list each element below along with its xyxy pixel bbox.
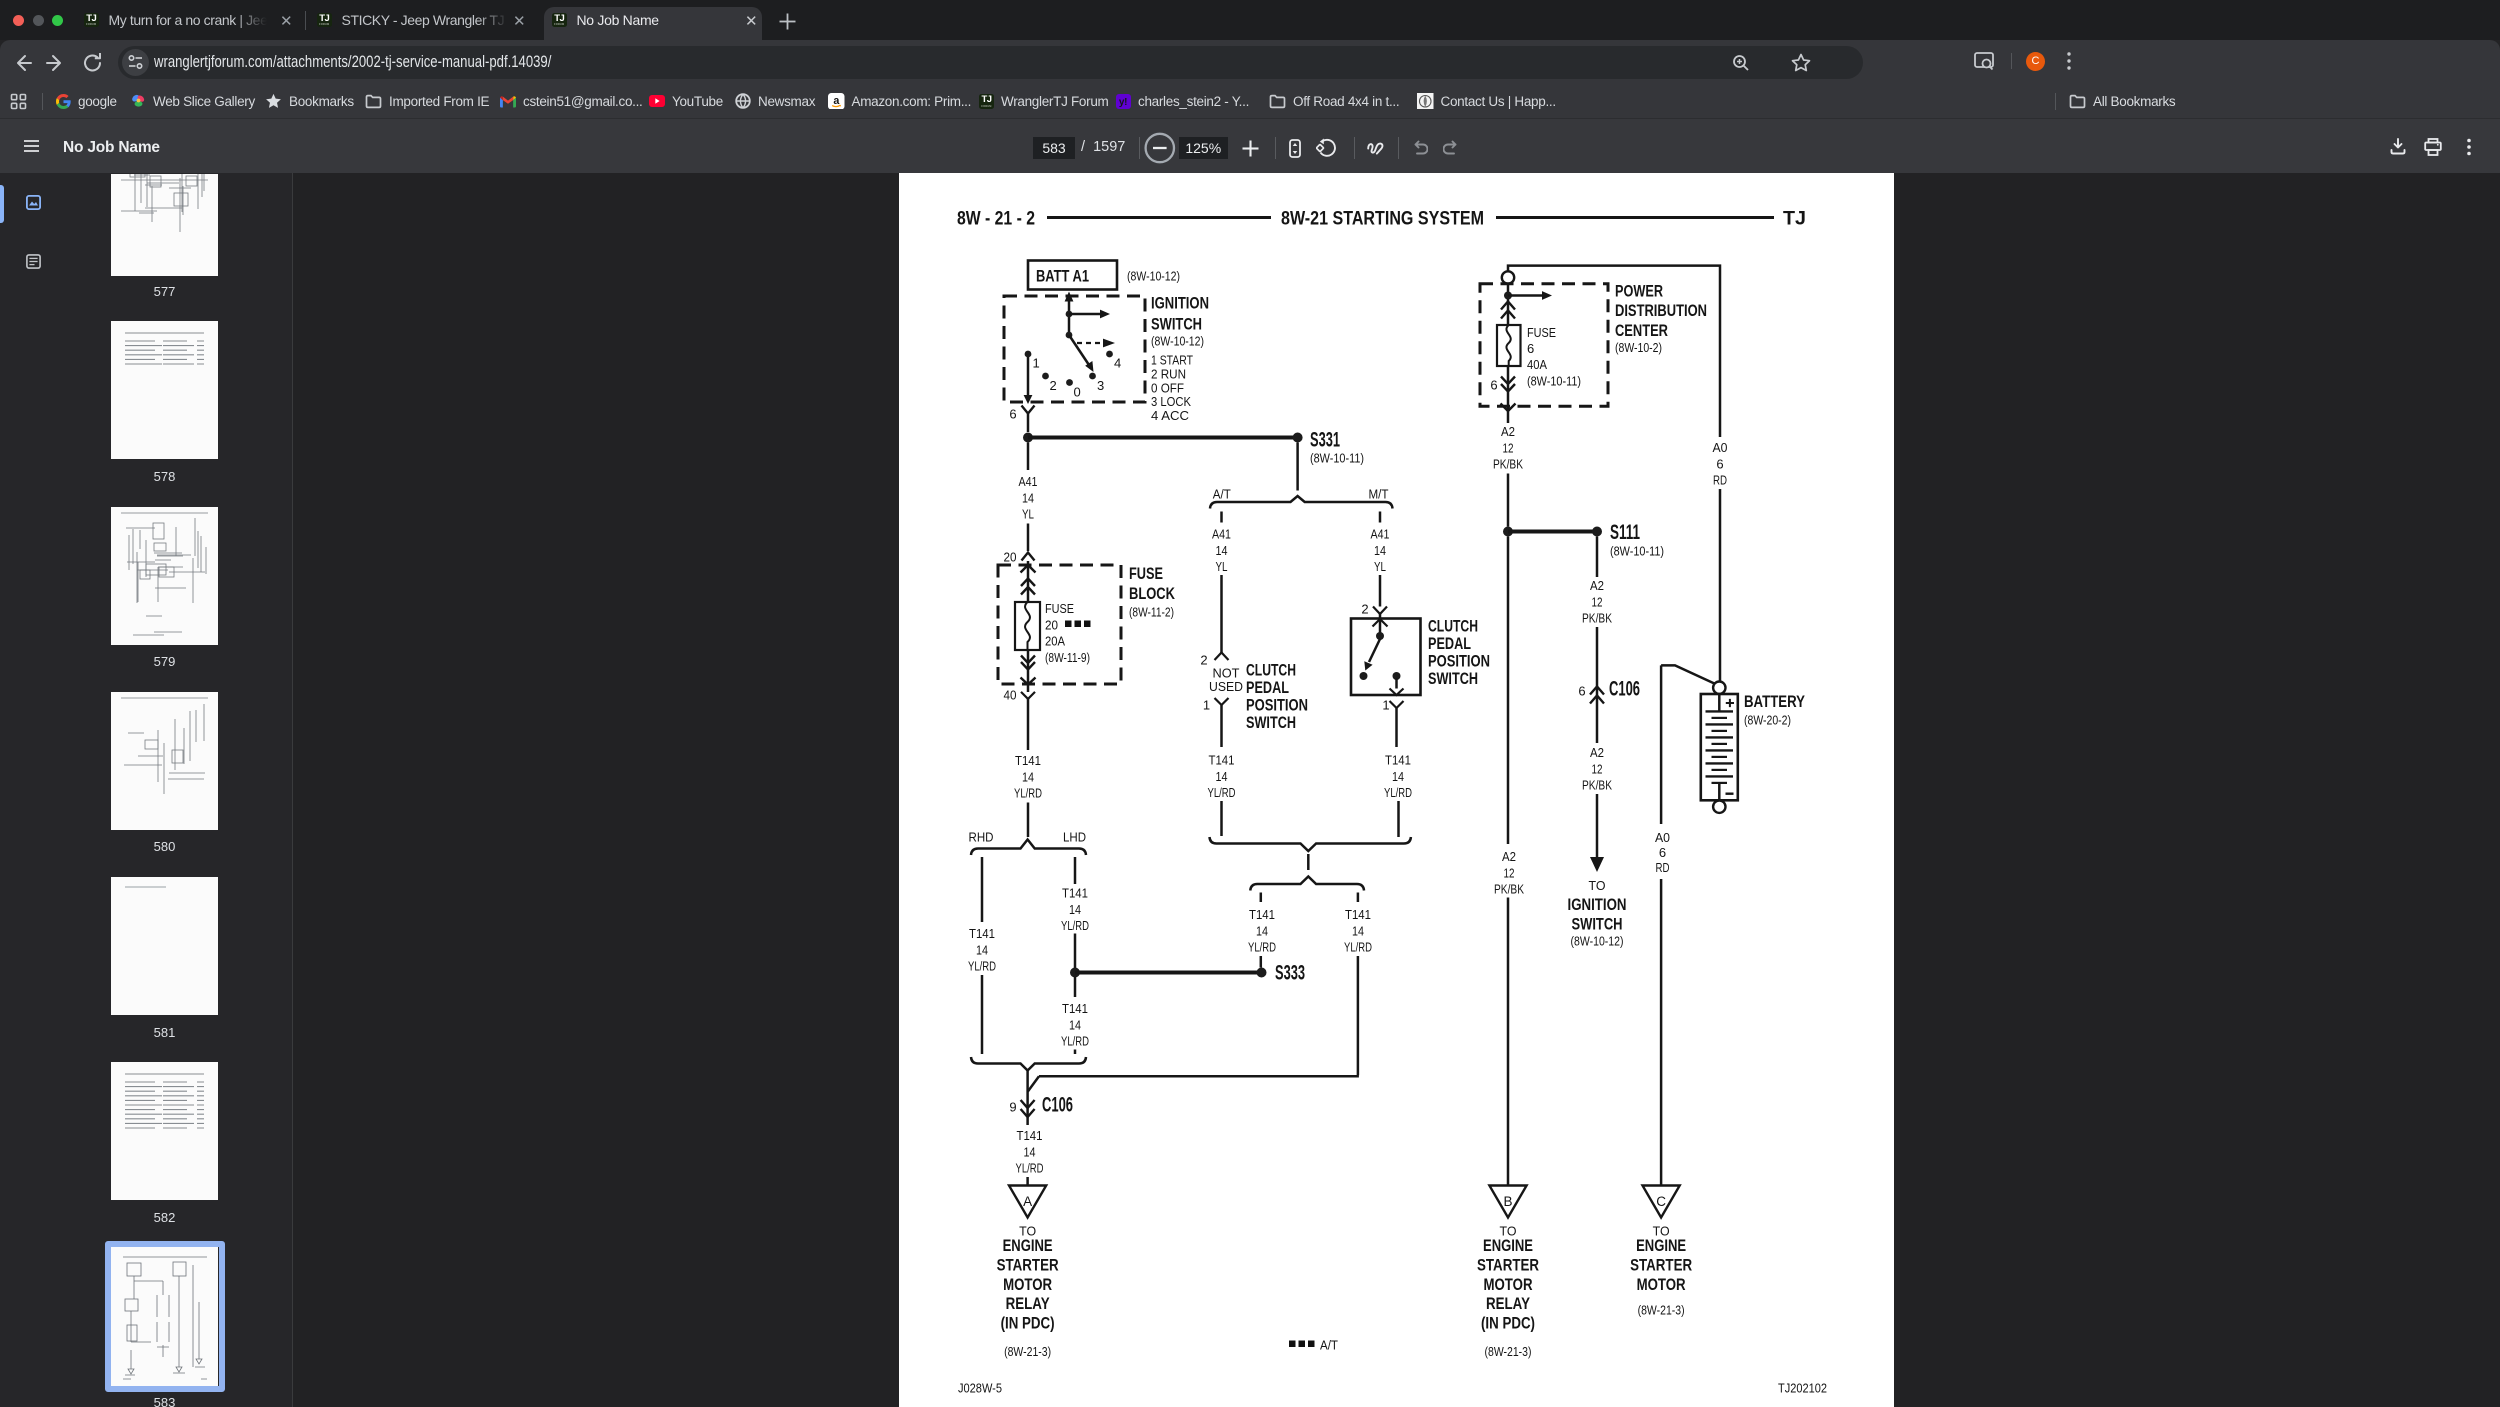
svg-text:1: 1 [1203,698,1210,713]
svg-text:T141: T141 [1385,753,1411,768]
reload [82,48,104,78]
wire into fuse 20 [1027,561,1030,602]
svg-text:12: 12 [1504,865,1515,880]
svg-text:C106: C106 [1042,1094,1073,1117]
svg-text:FUSE: FUSE [1129,564,1163,583]
svg-text:12: 12 [1592,594,1603,609]
svg-text:YL: YL [1374,559,1386,574]
svg-text:14: 14 [1216,769,1228,784]
svg-text:MOTOR: MOTOR [1003,1275,1052,1294]
svg-text:A2: A2 [1501,424,1515,439]
svg-text:(8W-21-3): (8W-21-3) [1638,1303,1685,1318]
svg-text:(8W-11-2): (8W-11-2) [1129,605,1174,620]
svg-text:USED: USED [1209,679,1243,694]
svg-text:RD: RD [1656,860,1670,875]
svg-text:S111: S111 [1610,521,1640,544]
svg-text:(8W-21-3): (8W-21-3) [1485,1344,1532,1359]
svg-text:J028W-5: J028W-5 [958,1381,1002,1396]
svg-text:3 LOCK: 3 LOCK [1151,394,1191,409]
svg-text:RHD: RHD [969,830,994,845]
svg-text:14: 14 [1392,769,1404,784]
svg-text:20A: 20A [1045,634,1065,649]
svg-text:STARTER: STARTER [1630,1255,1692,1274]
svg-text:y!: y! [1119,97,1127,108]
brace splitting A/T M/T [1210,496,1393,509]
PDC top connector circle [1502,271,1514,283]
battery positive terminal circle [1713,682,1725,694]
svg-text:14: 14 [1216,543,1228,558]
pdf toolbar [0,118,2500,173]
svg-text:STARTER: STARTER [1477,1255,1539,1274]
connector chevrons out of fuse block [1021,656,1035,664]
svg-text:(8W-10-11): (8W-10-11) [1310,451,1364,466]
splice S333 [1257,968,1267,978]
battery plus sign [1726,699,1734,707]
svg-text:MOTOR: MOTOR [1484,1275,1533,1294]
toolbar [0,40,2500,118]
svg-text:CENTER: CENTER [1615,321,1668,340]
svg-text:RD: RD [1713,473,1727,488]
svg-text:1: 1 [1382,698,1389,713]
svg-text:(8W-11-9): (8W-11-9) [1045,650,1090,665]
svg-text:C: C [1656,1194,1666,1209]
svg-text:IGNITION: IGNITION [1151,294,1209,313]
svg-text:RELAY: RELAY [1486,1294,1531,1313]
power distribution center dashed outline [1480,284,1608,407]
wire left branch to S333 [1260,893,1263,903]
off-page triangle A [1009,1186,1046,1218]
ignition switch position 4 contact [1106,351,1113,358]
svg-text:(IN PDC): (IN PDC) [1001,1314,1055,1333]
svg-text:(8W-10-12): (8W-10-12) [1151,334,1204,349]
svg-text:CLUTCH: CLUTCH [1246,661,1296,680]
connector C106 chevrons [1026,1102,1029,1125]
ignition switch dashed outline [1004,296,1145,402]
connector chevrons out of PDC [1501,377,1515,385]
svg-text:POSITION: POSITION [1246,696,1308,715]
off-page triangle B [1489,1186,1526,1218]
svg-text:STARTER: STARTER [997,1255,1059,1274]
arrowhead up into BATT A1 [1065,292,1074,302]
svg-text:14: 14 [1256,923,1268,938]
svg-text:A2: A2 [1590,578,1604,593]
wire below A/T M/T merge [1307,854,1310,870]
svg-text:YL/RD: YL/RD [1014,786,1042,801]
svg-text:(8W-10-12): (8W-10-12) [1127,269,1180,284]
wire junction to battery positive [1661,665,1715,683]
wire bus to S333 [1075,971,1262,975]
svg-text:A2: A2 [1590,745,1604,760]
svg-text:A41: A41 [1371,527,1390,542]
svg-text:(8W-20-2): (8W-20-2) [1744,713,1791,728]
svg-text:2: 2 [1050,378,1057,393]
svg-text:SWITCH: SWITCH [1572,915,1623,934]
svg-text:6: 6 [1659,845,1666,860]
svg-text:4 ACC: 4 ACC [1151,408,1189,423]
wire below RHD LHD merge [1026,1071,1029,1103]
wire bus to S111 [1508,530,1597,534]
svg-text:(8W-21-3): (8W-21-3) [1004,1344,1051,1359]
svg-text:YL/RD: YL/RD [1016,1161,1044,1176]
clutch switch output contact dot [1393,672,1401,680]
svg-text:3: 3 [1097,378,1104,393]
svg-text:T141: T141 [1209,753,1235,768]
svg-text:A: A [1023,1194,1032,1209]
svg-text:T141: T141 [1017,1128,1043,1143]
connector C106 upper chevrons [1596,679,1599,743]
redo [1443,140,1457,156]
rotate icon [1316,138,1336,158]
arrow to ignition switch feed [1590,857,1604,872]
svg-text:T141: T141 [1345,907,1371,922]
svg-text:S333: S333 [1275,962,1305,985]
clutch pedal position switch box [1351,619,1421,696]
wire A2 left column down to triangle B [1507,537,1510,845]
svg-text:14: 14 [976,942,988,957]
svg-text:YL/RD: YL/RD [1208,785,1236,800]
svg-text:IGNITION: IGNITION [1568,895,1627,914]
svg-text:40A: 40A [1527,357,1547,372]
svg-text:FUSE: FUSE [1045,601,1074,616]
connector chevrons into fuse block [1021,579,1035,587]
thumbnails [111,174,218,276]
svg-text:20: 20 [1004,550,1017,565]
ignition switch contact dot upper [1066,311,1073,318]
wire out of fuse 6 [1507,366,1510,423]
svg-text:C106: C106 [1609,678,1640,701]
svg-text:A/T: A/T [1320,1338,1338,1353]
ignition switch wiper arm toward position 3 [1069,335,1089,365]
connector chevron at fuse block bottom edge [1021,678,1036,685]
svg-text:BLOCK: BLOCK [1129,584,1176,603]
star icon [1791,53,1811,73]
wire right branch bypass [1357,893,1360,903]
svg-text:A0: A0 [1713,440,1728,455]
ignition switch START feed arrow [1069,313,1101,316]
svg-text:6: 6 [1527,341,1534,356]
svg-text:YL: YL [1022,507,1034,522]
svg-text:TJ202102: TJ202102 [1778,1381,1827,1396]
svg-text:PK/BK: PK/BK [1493,457,1523,472]
svg-text:YL/RD: YL/RD [1344,940,1372,955]
svg-text:T141: T141 [1062,1001,1088,1016]
site settings icon [122,49,149,76]
svg-text:14: 14 [1069,1017,1081,1032]
svg-text:SWITCH: SWITCH [1428,669,1478,688]
svg-text:PK/BK: PK/BK [1582,778,1612,793]
ignition switch dashed ACC arrow [1077,342,1104,344]
svg-text:ENGINE: ENGINE [1636,1236,1686,1255]
svg-text:20: 20 [1045,618,1058,633]
zoom icon [1731,53,1751,73]
wire out of fuse 20 [1027,650,1030,692]
svg-text:M/T: M/T [1369,487,1389,502]
SVG schematic goes here [899,173,1894,1407]
svg-text:(8W-10-2): (8W-10-2) [1615,340,1662,355]
svg-text:A41: A41 [1212,527,1231,542]
node BATT A1 box [1028,261,1117,290]
battery top stem [1718,694,1721,711]
wire LHD branch T141 [1074,857,1077,884]
svg-text:6: 6 [1716,456,1723,471]
brace merging RHD LHD [971,1057,1086,1071]
fuse 20 element [1015,602,1040,650]
PDC branch arrow [1508,294,1543,297]
clutch switch lower-left contact dot [1360,672,1368,680]
svg-text:PEDAL: PEDAL [1246,678,1289,697]
fuse block dashed outline [998,565,1121,684]
wire bypass horizontal run [1039,1075,1359,1078]
wire A41 14 YL from ignition switch [1027,443,1030,471]
svg-text:ENGINE: ENGINE [1483,1236,1533,1255]
splice S331 [1293,433,1303,443]
svg-text:(8W-10-12): (8W-10-12) [1571,934,1624,949]
svg-text:SWITCH: SWITCH [1151,315,1202,334]
svg-text:T141: T141 [1015,753,1041,768]
svg-text:1: 1 [1033,356,1040,371]
clutch switch arm arrow [1369,639,1380,662]
clutch switch output stem and chevron [1395,678,1398,689]
svg-text:8W-21 STARTING SYSTEM: 8W-21 STARTING SYSTEM [1281,209,1484,230]
svg-text:40: 40 [1004,688,1017,703]
svg-text:B: B [1503,1194,1512,1209]
wire LHD below splice [1074,977,1077,997]
connector chevrons into fuse 6 [1501,302,1515,310]
svg-text:14: 14 [1374,543,1386,558]
header rule right [1496,216,1774,219]
wire splice bus to S331 [1028,436,1298,440]
splice dot at S111 bus left [1503,527,1513,537]
wire from PDC circle to battery feed [1508,266,1720,437]
svg-text:6: 6 [1490,378,1497,393]
svg-text:POSITION: POSITION [1428,652,1490,671]
svg-text:(IN PDC): (IN PDC) [1481,1314,1535,1333]
svg-text:YL/RD: YL/RD [1384,785,1412,800]
svg-text:12: 12 [1592,761,1603,776]
ignition switch output arrow to terminal 6 [1027,357,1030,397]
svg-text:A/T: A/T [1213,487,1231,502]
connector chevron at fuse block edge [1021,565,1036,573]
svg-text:FUSE: FUSE [1527,325,1556,340]
connector chevron inside box top [1373,619,1388,627]
svg-text:BATT A1: BATT A1 [1036,267,1089,286]
download [2390,138,2406,155]
ignition switch feed wire to BATT A1 [1068,299,1071,335]
wire bypass diagonal merge [1028,1076,1039,1091]
svg-text:14: 14 [1022,490,1034,505]
svg-text:S331: S331 [1310,429,1340,452]
fuse 6 element [1497,325,1521,366]
off-page triangle C [1643,1186,1680,1218]
svg-text:T141: T141 [1249,907,1275,922]
wire inside PDC [1507,284,1510,325]
svg-text:ENGINE: ENGINE [1003,1236,1053,1255]
legend A/T dashes [1289,1341,1296,1348]
svg-text:2 RUN: 2 RUN [1151,366,1186,381]
search tabs icon [1973,51,1997,73]
splice S111 [1592,527,1602,537]
svg-text:RELAY: RELAY [1006,1294,1051,1313]
svg-text:YL/RD: YL/RD [1061,1034,1089,1049]
svg-text:PEDAL: PEDAL [1428,634,1471,653]
svg-text:YL/RD: YL/RD [968,959,996,974]
svg-text:8W - 21 - 2: 8W - 21 - 2 [957,209,1035,230]
node dot splice to S331 [1023,433,1033,443]
svg-text:YL: YL [1216,559,1228,574]
svg-text:POWER: POWER [1615,282,1663,301]
splice dot LHD [1070,968,1080,978]
wire A/T branch stub [1220,512,1223,523]
svg-text:BATTERY: BATTERY [1744,692,1806,711]
wire A0 6 RD down to triangle C [1660,665,1663,824]
svg-text:2: 2 [1361,602,1368,617]
svg-text:14: 14 [1352,923,1364,938]
wire from S331 down [1296,443,1299,491]
back arrow [11,48,33,78]
wire T141 M/T branch [1395,708,1398,747]
forward arrow [45,48,67,78]
undo [1414,140,1428,156]
svg-text:14: 14 [1022,769,1034,784]
ignition switch contact dot lower [1066,332,1073,339]
selected view indicator [0,185,4,223]
svg-text:6: 6 [1578,684,1585,699]
svg-text:0 OFF: 0 OFF [1151,380,1184,395]
brace merging A/T M/T [1210,837,1411,851]
svg-text:A2: A2 [1502,849,1516,864]
svg-text:CLUTCH: CLUTCH [1428,617,1478,636]
svg-text:MOTOR: MOTOR [1637,1275,1686,1294]
svg-text:PK/BK: PK/BK [1494,882,1524,897]
brace splitting to S333 and bypass [1250,877,1364,891]
svg-text:A41: A41 [1019,474,1038,489]
svg-text:0: 0 [1074,385,1081,400]
ignition switch position 2 contact [1042,373,1049,380]
svg-text:(8W-10-11): (8W-10-11) [1527,374,1581,389]
svg-text:DISTRIBUTION: DISTRIBUTION [1615,301,1707,320]
svg-text:SWITCH: SWITCH [1246,713,1296,732]
svg-text:T141: T141 [969,926,995,941]
wire T141 below fuse block [1027,699,1030,750]
svg-text:TO: TO [1589,878,1606,893]
connector chevron at PDC bottom edge [1501,404,1516,412]
ignition switch position 3 contact [1089,373,1096,380]
svg-text:TJ: TJ [1783,209,1806,230]
header rule left [1047,216,1271,219]
wire T141 A/T branch [1220,705,1223,747]
svg-text:4: 4 [1114,356,1121,371]
svg-text:2: 2 [1200,653,1207,668]
tab strip [0,0,2500,40]
wire A2 below S111 [1596,537,1599,578]
svg-text:YL/RD: YL/RD [1061,918,1089,933]
svg-text:YL/RD: YL/RD [1248,940,1276,955]
wire M/T branch stub [1379,512,1382,523]
svg-text:12: 12 [1503,440,1514,455]
battery bottom plate and stem [1712,782,1728,784]
svg-text:T141: T141 [1062,886,1088,901]
annotate squiggle [1367,139,1385,156]
print [2424,138,2442,156]
clutch switch common contact dot [1376,632,1384,640]
bookmarks bar [10,88,27,114]
svg-text:1 START: 1 START [1151,353,1193,368]
svg-text:PK/BK: PK/BK [1582,611,1612,626]
svg-text:14: 14 [1069,902,1081,917]
svg-text:9: 9 [1009,1100,1016,1115]
svg-text:A0: A0 [1655,830,1670,845]
fit page icon [1289,139,1301,158]
connector chevron at ignition pin 6 [1022,406,1035,414]
svg-text:6: 6 [1009,407,1016,422]
dots [2464,138,2474,156]
battery minus sign [1726,793,1734,795]
splice dot inside PDC [1504,292,1512,300]
svg-text:14: 14 [1024,1144,1036,1159]
ignition switch position 1 contact [1025,351,1032,358]
wire RHD branch T141 [981,857,984,922]
battery cell plates [1706,710,1734,712]
svg-text:LHD: LHD [1063,830,1086,845]
brace splitting RHD LHD [971,840,1086,856]
svg-text:(8W-10-11): (8W-10-11) [1610,544,1664,559]
battery outline box [1701,694,1738,800]
ignition switch position 0 contact [1066,379,1073,386]
battery negative terminal circle [1713,801,1725,813]
